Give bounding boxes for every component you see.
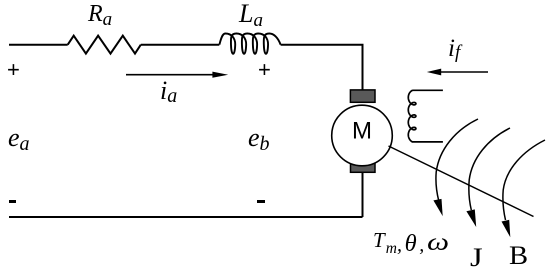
label i_f: [448, 35, 460, 64]
wire top-left segment: [9, 44, 68, 46]
label B: [509, 241, 528, 271]
field winding coil: [408, 90, 443, 142]
label e_a: [8, 123, 30, 156]
rotation arrowhead 1: [433, 199, 442, 216]
wire bottom vertical from brush: [362, 172, 364, 217]
wire between resistor and inductor: [141, 44, 220, 46]
current arrow i_a: [126, 72, 228, 78]
label e_b: [248, 123, 270, 156]
wire bottom horizontal: [9, 216, 363, 218]
rotation arrowhead 2: [466, 209, 476, 227]
label L_a: [239, 0, 263, 32]
svg-text:M: M: [352, 118, 372, 145]
rotation arc 3: [503, 140, 545, 220]
wire inductor to corner: [281, 45, 363, 90]
rotation arc 1: [436, 119, 478, 201]
plus sign e_a: [7, 57, 20, 83]
inductor L1 coil: [219, 34, 280, 54]
plus sign e_b: [258, 57, 271, 83]
rotation arrowhead 3: [502, 220, 511, 238]
minus sign e_b: [257, 200, 265, 203]
label J: [470, 243, 483, 273]
rotation arc 2: [469, 128, 510, 210]
label R_a: [88, 1, 112, 31]
brush top (commutator): [350, 90, 375, 102]
label T_m,theta,omega: [373, 226, 446, 258]
brush bottom (commutator): [351, 160, 376, 172]
minus sign e_a: [9, 200, 16, 203]
motor circle M: [332, 105, 393, 166]
resistor R1 zigzag: [68, 36, 141, 54]
shaft: [389, 146, 534, 217]
label i_a: [160, 76, 177, 108]
field current arrow i_f: [427, 69, 488, 76]
